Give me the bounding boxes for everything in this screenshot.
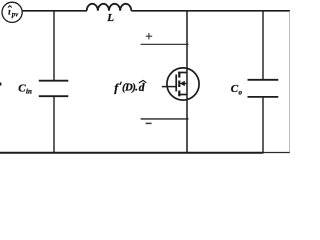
wire C_in branch top — [53, 11, 55, 81]
wire bottom rail right segment — [264, 152, 291, 154]
wire bottom rail — [0, 152, 264, 154]
svg-text:d: d — [139, 82, 145, 94]
node - terminal — [141, 119, 189, 124]
svg-text:o: o — [239, 88, 243, 96]
clipped label fragment — [0, 83, 1, 86]
svg-text:(D).: (D). — [122, 81, 137, 93]
wire top rail left segment — [22, 10, 87, 12]
svg-text:pv: pv — [11, 11, 19, 18]
wire C_in branch bottom — [53, 96, 55, 153]
capacitor C_o — [231, 80, 279, 97]
wire C_o branch top — [262, 11, 264, 81]
svg-text:C: C — [231, 83, 239, 95]
dependent source label f'(D).d — [114, 80, 146, 94]
transistor Q1 — [162, 68, 199, 100]
wire MOSFET branch — [186, 11, 188, 153]
current source I_pv — [2, 2, 22, 22]
capacitor C_in — [18, 81, 68, 97]
node + terminal — [141, 33, 189, 44]
svg-text:L: L — [106, 12, 114, 24]
svg-text:C: C — [18, 82, 26, 94]
wire top rail right segment — [131, 10, 290, 12]
wire C_o branch bottom — [262, 97, 264, 153]
svg-text:in: in — [26, 88, 32, 96]
wire right edge branch — [289, 11, 291, 153]
inductor L — [87, 4, 132, 24]
svg-text:ı: ı — [8, 7, 11, 17]
svg-text:f: f — [114, 80, 119, 94]
